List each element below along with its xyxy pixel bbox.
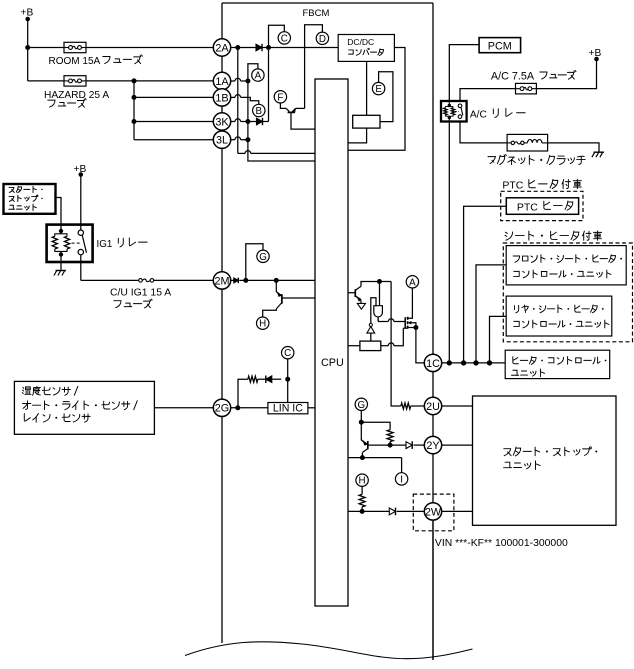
svg-text:H: H (359, 476, 366, 487)
node D stem (305, 25, 323, 109)
unit start-stop (lower) (473, 396, 617, 525)
svg-text:CPU: CPU (321, 357, 344, 369)
junction (243, 278, 248, 283)
resistor (2U row) (401, 403, 411, 409)
resistor (2W pull) (359, 494, 365, 507)
terminal 2Y (424, 436, 441, 453)
terminal 2U (424, 397, 441, 414)
ground (clutch) (594, 151, 605, 153)
wire +B to fuse (536, 59, 596, 89)
svg-text:B: B (256, 106, 263, 117)
svg-text:+B: +B (21, 7, 34, 18)
junction (359, 420, 364, 425)
svg-text:2Y: 2Y (426, 440, 439, 452)
svg-text:PTC: PTC (517, 201, 538, 213)
solenoid magnet clutch (507, 134, 547, 151)
svg-text:A/C: A/C (470, 110, 487, 121)
wire ROOM feed (28, 47, 64, 49)
wire block right to MOSFET source (381, 328, 404, 346)
label PTC heater variant (502, 179, 581, 191)
label IG1 relay (97, 238, 148, 250)
junction (266, 45, 271, 50)
svg-text:C: C (284, 348, 291, 359)
power +B (A/C) (589, 48, 602, 61)
terminal 1B (213, 89, 230, 106)
IC CPU (315, 79, 348, 606)
node G stem (lower) (360, 411, 362, 423)
svg-text:F: F (277, 92, 283, 103)
svg-text:C/U IG1 15 A: C/U IG1 15 A (110, 288, 171, 299)
node C (LIN) (282, 347, 294, 359)
node C (278, 32, 290, 44)
junction (132, 78, 137, 83)
svg-text:A/C 7.5A: A/C 7.5A (491, 71, 535, 83)
MOSFET Q4 (403, 288, 416, 328)
junction (132, 95, 137, 100)
svg-text:3K: 3K (215, 116, 229, 128)
svg-text:D: D (319, 34, 326, 45)
svg-text:1C: 1C (426, 358, 440, 370)
junction (360, 509, 365, 514)
relay IG1 (47, 225, 93, 262)
unit humidity/auto-light/rain sensor (14, 381, 154, 434)
resistor (2Y pullup) (387, 430, 393, 442)
wire branch 2A down (238, 48, 315, 154)
wire base line to I (348, 458, 402, 473)
wire to 1B (134, 96, 213, 98)
junction (25, 45, 30, 50)
junction (245, 79, 250, 84)
unit PCM (479, 38, 520, 53)
junction (245, 119, 250, 124)
svg-text:PCM: PCM (488, 41, 512, 53)
diode (3K row) (257, 118, 263, 125)
wire 2U to unit (442, 405, 473, 407)
node B (253, 104, 265, 116)
node H (lower) (356, 474, 368, 486)
terminal 3L (213, 131, 230, 148)
wire to 3K (134, 121, 213, 123)
unit front seat heater control (506, 246, 626, 285)
label A/C relay (470, 108, 525, 120)
transistor Q2 (2M row) (263, 280, 315, 316)
svg-text:G: G (357, 400, 365, 411)
value label ROOM 15A fuse (49, 55, 143, 67)
component R (drive block) (360, 341, 381, 351)
buffer U2 (inverted) to gate input (367, 298, 376, 341)
node I (395, 473, 407, 485)
junction (235, 45, 240, 50)
wire DCDC bottom (366, 61, 368, 115)
component K1 (switch block) (353, 115, 380, 128)
node A (252, 69, 264, 81)
junction (413, 325, 418, 330)
junction (245, 137, 250, 142)
svg-text:E: E (375, 84, 382, 95)
junction (235, 405, 240, 410)
node G (257, 250, 269, 262)
wire diode to 2Y (414, 444, 425, 446)
svg-text:H: H (259, 319, 266, 330)
diode (2Y row) (406, 442, 412, 449)
wire fuse to 2M (154, 279, 214, 281)
wire branch to 3K diode (268, 48, 270, 122)
label magnet clutch (488, 155, 585, 165)
wire Q3 collector to 2U (391, 282, 424, 407)
node A stem (248, 64, 258, 81)
junction (461, 360, 466, 365)
terminal 2A (213, 39, 230, 56)
variant dashed box seat heater (503, 243, 632, 342)
page continuation wave (185, 642, 473, 659)
node E stem (379, 72, 393, 122)
wire 1B row (231, 95, 259, 105)
wire relay coil to 1C node (448, 122, 450, 363)
svg-text:A: A (255, 71, 262, 82)
junction (285, 377, 290, 382)
value label C/U IG1 15 A fuse (110, 288, 171, 308)
power +B (IG1) (74, 164, 87, 177)
terminal 1A (213, 72, 230, 89)
wire clutch to ground (548, 143, 599, 152)
svg-text:I: I (400, 474, 403, 485)
svg-text:1A: 1A (215, 76, 229, 88)
unit heater control (505, 350, 610, 378)
fuse C/U IG1 15A inline (139, 279, 154, 283)
diode (2W row) (389, 508, 395, 515)
svg-text:IG1: IG1 (97, 239, 113, 250)
wire 1C to PTC heater (464, 206, 507, 363)
wire 2A row (231, 47, 339, 49)
terminal 2G (213, 399, 230, 416)
svg-text:2M: 2M (215, 275, 230, 287)
wire hazard branch vertical (133, 81, 135, 140)
node D (316, 32, 328, 44)
junction (473, 360, 478, 365)
wire HAZARD feed (28, 80, 64, 82)
svg-text:1B: 1B (215, 92, 228, 104)
wire diode-resistor branch (238, 379, 281, 408)
svg-text:G: G (259, 252, 267, 263)
node E (372, 82, 384, 94)
diode (LIN branch) (266, 376, 272, 383)
fuse ROOM 15A (64, 42, 86, 52)
resistor (LIN branch) (248, 376, 258, 382)
unit rear seat heater control (506, 296, 612, 336)
terminal 2M (213, 272, 230, 289)
wire fuse to node (86, 80, 213, 82)
junction (360, 455, 365, 460)
wire MOSFET to 1C (416, 328, 425, 363)
fuse A/C 7.5A (516, 83, 537, 94)
transistor Q3 (CPU right top) (348, 282, 391, 310)
svg-text:3L: 3L (216, 135, 228, 147)
wire 1C to front seat heater (476, 265, 506, 363)
svg-text:C: C (281, 33, 288, 44)
FBCM module outline (222, 3, 433, 660)
fuse HAZARD 25A (64, 76, 86, 86)
wire 2Y to unit (442, 444, 473, 446)
wire relay switch to clutch (460, 122, 507, 143)
terminal 2W (424, 503, 441, 520)
gate U1 (AND) (374, 306, 383, 322)
variant dashed box PTC (501, 191, 583, 220)
wire fuse to 2A (86, 47, 213, 49)
wire 2G row to LIN IC (231, 407, 268, 409)
ground (IG1 relay coil) (54, 262, 66, 276)
VIN variant dashed box (413, 494, 454, 531)
wire +B down (27, 19, 29, 81)
svg-text:2W: 2W (425, 506, 442, 518)
svg-text:DC/DC: DC/DC (347, 37, 374, 47)
svg-text:LIN IC: LIN IC (273, 403, 303, 415)
unit start-stop (upper) (4, 184, 56, 214)
unit PTC heater (506, 198, 578, 215)
junction (447, 360, 452, 365)
junction (132, 119, 137, 124)
svg-text:HAZARD 25 A: HAZARD 25 A (44, 90, 109, 101)
wire sensor to 2G (154, 407, 213, 409)
power +B (top left) (21, 7, 34, 21)
transistor Q5 (2Y row) (361, 422, 406, 457)
relay A/C (441, 101, 467, 122)
svg-text:ROOM 15A: ROOM 15A (49, 56, 101, 67)
wire 1A-3L vertical (248, 81, 315, 161)
IC DC/DC converter (338, 35, 394, 62)
diode (2A row) (256, 44, 262, 51)
svg-text:2A: 2A (215, 42, 229, 54)
wire 2M row (231, 279, 315, 281)
wire 3L row (231, 137, 248, 140)
wire fuse to relay switch (460, 89, 516, 101)
value label A/C 7.5A fuse (491, 70, 576, 82)
junction (487, 360, 492, 365)
wire block left to CPU (348, 345, 360, 347)
value label HAZARD 25 A fuse (44, 90, 109, 108)
wire 2W down (432, 520, 434, 660)
wire to pullup resistor (361, 422, 390, 445)
node F (274, 91, 286, 103)
wire 3K row (231, 119, 269, 122)
node H (257, 317, 269, 329)
wire 1A row (231, 78, 248, 81)
wire PCM to A/C relay coil (449, 45, 479, 101)
wire +B to IG1 switch (80, 175, 82, 231)
wire LIN IC to CPU (308, 407, 315, 409)
junction (274, 278, 279, 283)
wire 1C to rear seat heater (490, 316, 507, 363)
label seat heater variant (505, 231, 602, 240)
wire gate logic drop (379, 282, 381, 306)
wire DCDC right loop (348, 48, 405, 151)
svg-text:2G: 2G (215, 403, 229, 415)
junction (388, 443, 393, 448)
diode (2M row) (234, 278, 239, 283)
terminal 1C (424, 354, 441, 371)
svg-text:A: A (409, 277, 416, 288)
wire gate output to MOSFET gate (378, 319, 405, 322)
node H stem (lower) (361, 486, 363, 511)
wire 2W to unit (442, 510, 473, 512)
node C stem (LIN) (287, 359, 289, 403)
wire 2W row (348, 510, 424, 512)
svg-text:2U: 2U (426, 401, 440, 413)
svg-text:PTC: PTC (502, 180, 523, 192)
node C stem (269, 25, 285, 47)
node A (MOSFET drain) (406, 276, 418, 288)
transistor Q1 (F/D pass) (280, 103, 315, 129)
wire block to CPU (348, 128, 367, 143)
node G stem (246, 244, 263, 281)
wire IG1 switch to 2M (81, 255, 139, 281)
terminal 3K (213, 113, 230, 130)
node G (lower) (355, 398, 367, 410)
IC LIN IC (268, 403, 308, 415)
junction (377, 279, 382, 284)
wire start-stop to IG1 relay coil (56, 198, 62, 225)
wire 1C row (442, 362, 506, 364)
wire to 3L (134, 139, 213, 141)
svg-text:VIN ***-KF** 100001-300000: VIN ***-KF** 100001-300000 (435, 538, 568, 549)
svg-text:FBCM: FBCM (303, 8, 330, 19)
